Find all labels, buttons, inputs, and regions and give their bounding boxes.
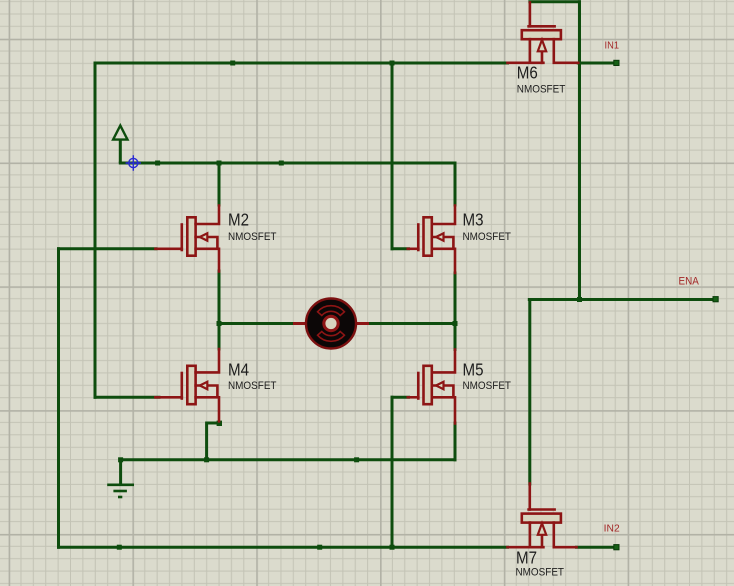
svg-text:IN2: IN2	[604, 524, 620, 535]
wire ground bus	[121, 458, 455, 461]
wire top bus vertical from corner down at x=95	[94, 63, 97, 397]
node top bus T junction M3 feed	[390, 61, 395, 66]
svg-text:M7: M7	[516, 547, 537, 567]
node M4 source jog dot	[217, 421, 222, 426]
terminal ENA	[713, 297, 718, 302]
svg-text:NMOSFET: NMOSFET	[516, 567, 565, 579]
svg-text:IN1: IN1	[605, 41, 620, 52]
node motor left T junction	[217, 321, 222, 326]
wire ENA row	[529, 298, 713, 301]
wire motor node down to M5 drain	[454, 324, 457, 350]
svg-text:NMOSFET: NMOSFET	[228, 380, 277, 392]
motor	[293, 299, 369, 349]
transistor M3	[408, 206, 455, 274]
svg-text:NMOSFET: NMOSFET	[228, 231, 277, 243]
svg-text:M3: M3	[463, 210, 484, 230]
node bottom bus T junction M5 feed	[390, 545, 395, 550]
transistor M2	[155, 206, 219, 272]
svg-text:M4: M4	[228, 359, 249, 379]
wire M4 source jog	[207, 423, 220, 460]
wire bottom bus left segment	[59, 546, 508, 549]
node power row dot 2	[279, 161, 284, 166]
svg-text:M6: M6	[517, 62, 538, 82]
wire top bus left segment	[95, 62, 508, 65]
origin marker	[126, 155, 141, 170]
transistor M5	[408, 350, 455, 424]
wire power row corner down to M3 drain	[454, 163, 457, 205]
node bottom bus dot 1	[117, 545, 122, 550]
svg-text:NMOSFET: NMOSFET	[463, 380, 512, 392]
wire motor node down to M4 drain	[218, 324, 221, 350]
node ground bus M4 T junction	[204, 457, 209, 462]
wire M3 source to motor node	[454, 273, 457, 324]
node ground bus dot	[354, 457, 359, 462]
wire bottom bus right green segment to IN2	[577, 546, 614, 549]
wire M2 drain vertical green	[218, 163, 221, 205]
wire top bus right green segment to IN1	[578, 62, 613, 65]
node ENA T junction	[577, 297, 582, 302]
svg-text:ENA: ENA	[679, 276, 700, 288]
node top bus dot	[230, 61, 235, 66]
wire M3 gate feed vertical	[391, 63, 394, 249]
power symbol	[113, 126, 127, 164]
transistor M6	[508, 3, 579, 63]
wire ENA corner down to M7 gate	[528, 300, 531, 485]
terminal IN2	[614, 545, 619, 550]
transistor M4	[155, 349, 219, 421]
node motor right T junction	[453, 321, 458, 326]
wire M5 gate green segment	[392, 396, 409, 399]
ground	[107, 460, 134, 497]
wire power row	[120, 162, 455, 165]
wire ground bus corner up to M5 source	[454, 423, 457, 460]
wire left vertical M2 gate to bottom bus	[57, 249, 60, 547]
node ground bus tap	[118, 457, 123, 462]
wire M4 gate green segment	[95, 396, 159, 399]
node bottom bus dot 2	[317, 545, 322, 550]
svg-text:M5: M5	[463, 359, 484, 379]
svg-text:M2: M2	[228, 210, 249, 230]
node power row dot 1	[155, 161, 160, 166]
wire M6 gate jumper top	[530, 0, 580, 3]
wire M3 gate green segment	[392, 247, 409, 250]
wire motor right	[368, 322, 455, 325]
svg-text:NMOSFET: NMOSFET	[463, 231, 512, 243]
terminal IN1	[614, 60, 619, 65]
wire M5 gate feed vertical	[391, 397, 394, 547]
svg-text:NMOSFET: NMOSFET	[517, 84, 566, 96]
wire M2 gate green segment	[59, 247, 157, 250]
wire M2 source to motor node	[218, 271, 221, 324]
node power row T junction	[217, 161, 222, 166]
transistor M7	[508, 484, 577, 548]
wire right vertical from M6 jumper to ENA	[578, 2, 581, 300]
wire motor left	[219, 322, 294, 325]
